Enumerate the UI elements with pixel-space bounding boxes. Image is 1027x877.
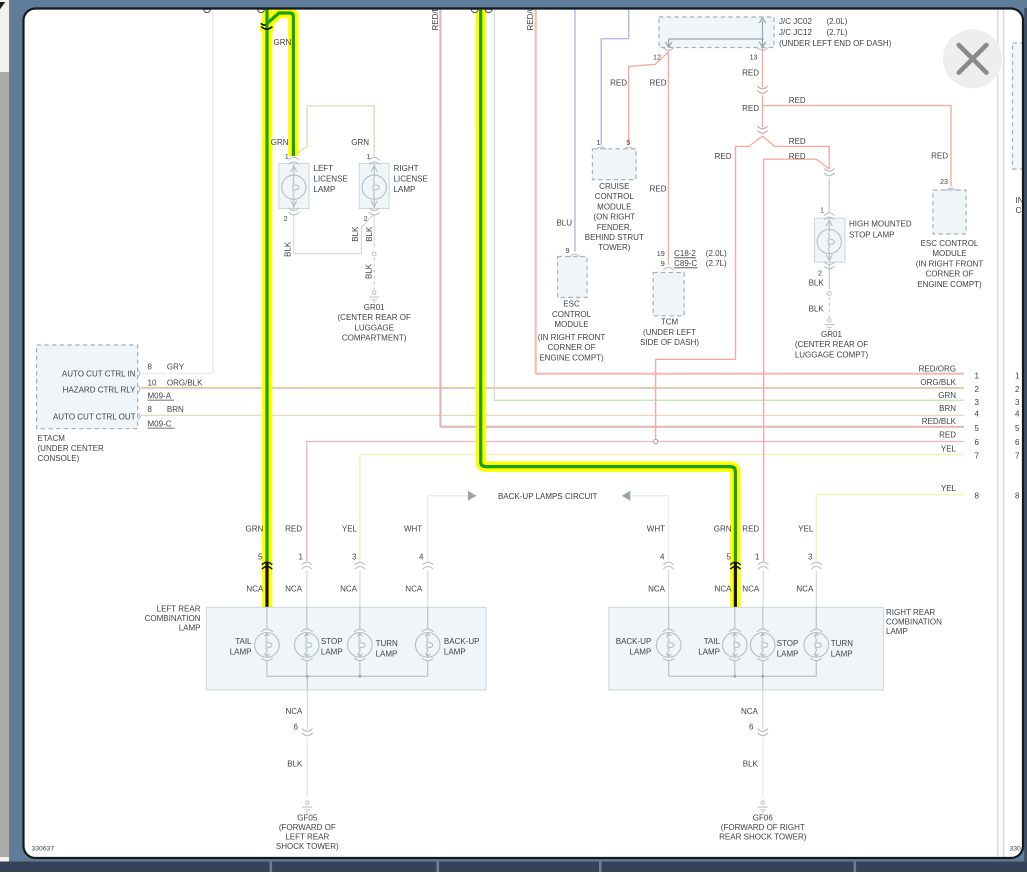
svg-text:5: 5 — [626, 138, 630, 147]
right combination lamp ground exit wire — [762, 689, 764, 729]
svg-text:ETACM: ETACM — [38, 434, 66, 443]
svg-text:1: 1 — [975, 371, 980, 380]
ESC right pin 23 bridge — [946, 188, 956, 191]
svg-text:SHOCK TOWER): SHOCK TOWER) — [276, 842, 339, 851]
svg-text:BRN: BRN — [939, 404, 956, 413]
left rear combination lamp label — [145, 605, 201, 633]
svg-text:LEFT: LEFT — [314, 164, 334, 173]
left tail lamp — [255, 607, 280, 676]
BACK-UP LAMPS CIRCUIT pointer triangles — [468, 491, 477, 501]
svg-text:2: 2 — [364, 214, 368, 223]
svg-text:LAMP: LAMP — [394, 185, 416, 194]
combination lamp pin bridges left: pin1 pin3 pin4 — [302, 562, 312, 569]
right stop lamp — [751, 607, 776, 676]
svg-text:BLK: BLK — [743, 760, 759, 769]
svg-text:LAMP: LAMP — [314, 185, 336, 194]
svg-text:1: 1 — [366, 152, 370, 161]
ground GF06 — [758, 801, 768, 812]
svg-text:RED: RED — [931, 152, 948, 161]
right combination lamp NCA column wires — [668, 571, 670, 608]
TCM box — [653, 273, 684, 316]
in-line connector above high mounted stop lamp — [824, 169, 834, 176]
splice circle license BLK — [372, 252, 376, 256]
svg-text:RED/ORG: RED/ORG — [919, 364, 956, 373]
svg-text:RED: RED — [610, 79, 627, 88]
svg-text:AUTO CUT CTRL OUT: AUTO CUT CTRL OUT — [53, 412, 136, 421]
close button X icon — [959, 45, 987, 73]
thumbnail separator — [270, 862, 273, 873]
svg-text:STOP: STOP — [777, 639, 799, 648]
GR01 left text — [338, 303, 411, 343]
combination lamp pin numbers left — [258, 553, 424, 562]
svg-text:LAMP: LAMP — [179, 624, 201, 633]
svg-text:WHT: WHT — [404, 524, 422, 533]
svg-text:330637: 330637 — [32, 846, 55, 853]
right ground exit in-line connector — [758, 729, 768, 736]
svg-text:3: 3 — [975, 398, 980, 407]
svg-text:NCA: NCA — [285, 584, 303, 593]
svg-text:(CENTER REAR OF: (CENTER REAR OF — [338, 313, 411, 322]
svg-text:CORNER OF: CORNER OF — [926, 270, 974, 279]
GR01 right text — [795, 330, 869, 359]
svg-text:TCM: TCM — [661, 318, 679, 327]
svg-text:LAMP: LAMP — [376, 650, 398, 659]
svg-text:STOP: STOP — [321, 637, 343, 646]
svg-text:8: 8 — [148, 363, 153, 372]
svg-text:C18-2: C18-2 — [674, 249, 696, 258]
svg-text:BRN: BRN — [167, 405, 184, 414]
svg-text:(UNDER LEFT END OF DASH): (UNDER LEFT END OF DASH) — [779, 39, 892, 48]
wire row4 BRN: ETACM AUTO CUT CTRL OUT to right page edge — [141, 414, 964, 416]
svg-text:BACK-UP: BACK-UP — [444, 637, 480, 646]
svg-text:J/C JC02: J/C JC02 — [779, 17, 812, 26]
ESC control module box (left) — [558, 257, 588, 298]
svg-text:HAZARD CTRL RLY: HAZARD CTRL RLY — [63, 385, 137, 394]
svg-text:BLK: BLK — [351, 226, 360, 242]
svg-text:BACK-UP: BACK-UP — [616, 637, 652, 646]
left back-up lamp — [415, 607, 440, 676]
svg-text:NCA: NCA — [741, 707, 759, 716]
svg-text:RED: RED — [650, 185, 667, 194]
ESC control module left text — [538, 300, 606, 363]
ground GF05 — [302, 801, 312, 812]
stop lamp pin 1 bridges — [824, 213, 834, 220]
left license lamp pin 2 cups — [289, 208, 299, 215]
svg-text:BLK: BLK — [365, 226, 374, 242]
svg-text:GR01: GR01 — [821, 330, 842, 339]
wire row1 RED/ORG: from top of page down x=535.7 then right to page edge — [535, 9, 964, 373]
scrollbar arrow — [0, 2, 5, 9]
svg-text:NCA: NCA — [742, 584, 760, 593]
ETACM pin arcs — [138, 370, 140, 419]
right turn lamp — [804, 607, 829, 676]
svg-text:4: 4 — [419, 553, 424, 562]
wire GRN thin between license lamps — [294, 106, 374, 157]
splice circle stop lamp BLK — [827, 291, 831, 295]
right license lamp box — [359, 164, 389, 209]
wire gray from stop lamp in-line connector to pin 1 — [828, 179, 830, 213]
junction circle on row6 RED — [653, 439, 657, 443]
combination lamp pin bridges right: pin4 pin1 pin3 — [663, 562, 673, 569]
thumbnail separator — [437, 862, 440, 873]
page boundary double line — [998, 9, 1004, 859]
stop lamp pin 2 cups — [824, 262, 834, 269]
ground GR01 right — [824, 318, 834, 329]
cruise control module box — [592, 149, 636, 180]
svg-text:3: 3 — [808, 553, 813, 562]
svg-text:RED: RED — [939, 431, 956, 440]
svg-text:BLU: BLU — [556, 218, 572, 227]
svg-text:STOP LAMP: STOP LAMP — [849, 231, 895, 240]
close button — [943, 29, 1002, 88]
svg-text:M09-C: M09-C — [148, 419, 172, 428]
svg-text:J/C JC12: J/C JC12 — [779, 28, 812, 37]
svg-text:330: 330 — [1010, 846, 1022, 853]
svg-text:2: 2 — [975, 385, 980, 394]
svg-text:(FORWARD OF: (FORWARD OF — [279, 823, 336, 832]
wire BLU from top of page to cruise control module pin 1 — [601, 9, 628, 145]
svg-text:(FORWARD OF RIGHT: (FORWARD OF RIGHT — [721, 823, 805, 832]
right rear combination lamp box — [609, 607, 884, 690]
svg-text:CONTROL: CONTROL — [595, 192, 635, 201]
highlighted GRN wire cores — [267, 8, 735, 562]
svg-text:FENDER,: FENDER, — [597, 223, 632, 232]
ESC control module box (right) — [933, 190, 966, 234]
svg-text:NCA: NCA — [648, 584, 666, 593]
wire RED from J/C pin 12 diagonal to cruise control module pin 5 — [629, 52, 669, 145]
svg-text:1: 1 — [299, 553, 304, 562]
svg-text:4: 4 — [975, 410, 980, 419]
row pin numbers col1 — [975, 371, 980, 500]
svg-text:ESC CONTROL: ESC CONTROL — [921, 239, 979, 248]
CCM pin 5 bridge — [624, 147, 634, 150]
svg-text:GRN: GRN — [351, 138, 369, 147]
svg-text:6: 6 — [1015, 438, 1020, 447]
svg-text:4: 4 — [1015, 410, 1020, 419]
right lamp bus — [669, 675, 817, 677]
svg-text:YEL: YEL — [342, 524, 358, 533]
svg-text:RED: RED — [789, 137, 806, 146]
highlighted pin 5 bridges (black) — [262, 562, 272, 569]
svg-text:ORG/BLK: ORG/BLK — [167, 379, 203, 388]
svg-text:CORNER OF: CORNER OF — [548, 343, 596, 352]
left ground exit in-line connector — [302, 729, 312, 736]
svg-text:YEL: YEL — [941, 484, 957, 493]
svg-text:LUGGAGE COMPT): LUGGAGE COMPT) — [795, 350, 869, 359]
wire WHT right: back-up lamps circuit bracket to right back-up lamp pin 4 — [631, 496, 669, 562]
svg-text:TAIL: TAIL — [235, 637, 252, 646]
next-page connector box (cut at right edge) — [1013, 43, 1027, 169]
black in-line connector on highlighted wire near top — [261, 27, 272, 30]
thumbnail separator — [854, 862, 857, 873]
wire BLK from right license lamp pin 2 down to splice — [373, 215, 375, 248]
svg-text:NCA: NCA — [796, 584, 814, 593]
wire RED Y-split left branch down to row6 junction — [656, 136, 763, 439]
svg-text:LUGGAGE: LUGGAGE — [354, 323, 394, 332]
svg-text:9: 9 — [566, 246, 570, 255]
svg-text:LAMP: LAMP — [831, 650, 853, 659]
svg-text:19: 19 — [657, 249, 665, 258]
svg-text:8: 8 — [975, 492, 980, 501]
svg-text:TOWER): TOWER) — [598, 243, 631, 252]
svg-text:ENGINE COMPT): ENGINE COMPT) — [917, 280, 982, 289]
svg-text:(UNDER LEFT: (UNDER LEFT — [643, 328, 696, 337]
page-top connector bumps — [204, 9, 211, 12]
svg-text:LICENSE: LICENSE — [314, 174, 348, 183]
svg-text:GRN: GRN — [714, 524, 732, 533]
svg-text:5: 5 — [727, 553, 732, 562]
svg-text:NCA: NCA — [246, 584, 264, 593]
svg-text:GF06: GF06 — [753, 814, 774, 823]
svg-text:6: 6 — [294, 723, 299, 732]
bottom thumbnail bar — [0, 862, 1027, 873]
svg-text:(ON RIGHT: (ON RIGHT — [593, 213, 635, 222]
svg-text:BLK: BLK — [365, 263, 374, 279]
wire row7 YEL: left turn lamp pin 3 up to y=454.6 then right to page edge — [360, 455, 964, 562]
svg-text:SIDE OF DASH): SIDE OF DASH) — [640, 338, 699, 347]
svg-text:LAMP: LAMP — [444, 648, 466, 657]
left combination lamp ground exit wire — [306, 689, 308, 729]
J/C pin 12 cup — [663, 48, 673, 51]
wire BLK from left license lamp pin 2 to right license lamp pin 2 — [294, 215, 374, 254]
right tail lamp — [723, 607, 748, 676]
svg-text:LICENSE: LICENSE — [394, 174, 428, 183]
svg-text:(CENTER REAR OF: (CENTER REAR OF — [795, 340, 868, 349]
left scrollbar track — [0, 0, 9, 863]
svg-text:REAR SHOCK TOWER): REAR SHOCK TOWER) — [719, 833, 807, 842]
svg-text:ENGINE COMPT): ENGINE COMPT) — [539, 353, 604, 362]
svg-text:C89-C: C89-C — [674, 259, 697, 268]
svg-text:YEL: YEL — [941, 444, 957, 453]
wire BLK dashed to ground GR01 — [373, 258, 375, 291]
svg-text:1: 1 — [597, 138, 601, 147]
svg-text:GRN: GRN — [938, 391, 956, 400]
svg-text:RED: RED — [742, 69, 759, 78]
svg-text:GRN: GRN — [274, 38, 292, 47]
svg-text:BLK: BLK — [809, 305, 825, 314]
svg-text:GR01: GR01 — [364, 303, 385, 312]
lamp names right box — [616, 637, 652, 657]
wire RED branch to ESC control module pin 23 — [763, 106, 952, 186]
svg-text:MODULE: MODULE — [554, 320, 588, 329]
svg-text:GRY: GRY — [167, 363, 185, 372]
TCM pin bridge — [663, 267, 673, 270]
svg-text:NCA: NCA — [286, 707, 304, 716]
svg-text:LAMP: LAMP — [230, 648, 252, 657]
svg-text:YEL: YEL — [798, 524, 814, 533]
wire RED from stop lamp connector left-down to right stop lamp pin 1 — [764, 159, 830, 561]
svg-text:7: 7 — [1015, 452, 1020, 461]
svg-text:CRUISE: CRUISE — [599, 182, 629, 191]
svg-text:RIGHT REAR: RIGHT REAR — [886, 608, 935, 617]
wire RED from J/C pin 13 down to in-line connector — [762, 48, 764, 87]
in-line connector on RED wire (lower) — [757, 126, 767, 133]
wire row2 ORG/BLK: ETACM HAZARD CTRL RLY to right page edge — [141, 387, 964, 389]
svg-text:CONTROL: CONTROL — [552, 310, 592, 319]
svg-text:5: 5 — [975, 424, 980, 433]
svg-text:6: 6 — [749, 723, 754, 732]
svg-text:WHT: WHT — [647, 524, 665, 533]
svg-text:RED: RED — [789, 152, 806, 161]
svg-text:8: 8 — [148, 405, 153, 414]
svg-text:COMBINATION: COMBINATION — [886, 617, 942, 626]
svg-text:2: 2 — [818, 269, 822, 278]
svg-text:3: 3 — [1015, 398, 1020, 407]
left license lamp bulb — [282, 164, 306, 209]
svg-text:7: 7 — [975, 452, 980, 461]
wire row5 RED/BLK: from top of page down x=440.5 then right to page edge — [440, 9, 964, 426]
svg-text:4: 4 — [660, 553, 665, 562]
thumbnail separator — [599, 862, 602, 873]
svg-text:ORG/BLK: ORG/BLK — [920, 378, 956, 387]
high mounted stop lamp box — [815, 218, 846, 262]
svg-text:1: 1 — [285, 152, 289, 161]
svg-text:ESC: ESC — [563, 300, 580, 309]
in-line connector on RED wire (upper) — [757, 86, 767, 93]
svg-text:LAMP: LAMP — [698, 648, 720, 657]
svg-text:RED: RED — [715, 152, 732, 161]
ESC control module right text — [916, 239, 984, 289]
TCM text — [640, 318, 699, 347]
svg-text:TURN: TURN — [831, 639, 853, 648]
svg-text:23: 23 — [940, 177, 948, 186]
svg-text:RED: RED — [285, 524, 302, 533]
highlighted GRN wire halo — [267, 8, 735, 607]
scrollbar thumb — [0, 72, 9, 857]
svg-text:COMPARTMENT): COMPARTMENT) — [342, 334, 407, 343]
svg-text:RED/BLK: RED/BLK — [922, 417, 957, 426]
right license lamp pin 1 bridges — [369, 158, 379, 165]
svg-text:NCA: NCA — [405, 584, 423, 593]
wire from high mounted stop lamp pin 2 down to splice — [828, 264, 830, 290]
svg-text:BACK-UP LAMPS CIRCUIT: BACK-UP LAMPS CIRCUIT — [498, 492, 598, 501]
wire BLK dashed to ground GR01 right — [828, 297, 830, 318]
left license lamp box — [279, 164, 309, 209]
right back-up lamp — [656, 607, 681, 676]
svg-text:(2.7L): (2.7L) — [827, 28, 848, 37]
svg-text:GRN: GRN — [246, 524, 264, 533]
svg-text:LAMP: LAMP — [630, 648, 652, 657]
svg-text:1: 1 — [755, 553, 760, 562]
left combination lamp NCA column wires — [306, 571, 308, 608]
svg-text:12: 12 — [653, 53, 661, 62]
svg-text:3: 3 — [352, 553, 357, 562]
svg-text:RED: RED — [742, 104, 759, 113]
highlighted wire NCA black cores below pin 5 — [265, 562, 268, 607]
NCA labels left — [246, 584, 422, 593]
left license lamp pin 1 bridges — [289, 158, 299, 165]
svg-text:2: 2 — [284, 214, 288, 223]
right license lamp bulb — [362, 164, 386, 209]
J/C pin 13 cup — [757, 48, 767, 51]
left rear combination lamp box — [206, 607, 486, 690]
svg-text:COMBINATION: COMBINATION — [145, 614, 201, 623]
svg-text:CONSOLE): CONSOLE) — [38, 454, 80, 463]
scrollbar border — [9, 0, 10, 863]
svg-text:6: 6 — [975, 438, 980, 447]
ground GR01 left — [369, 291, 379, 302]
svg-text:BEHIND STRUT: BEHIND STRUT — [585, 233, 644, 242]
ESC left pin 9 bridge — [570, 254, 580, 257]
svg-text:BLK: BLK — [283, 241, 292, 257]
svg-text:(2.0L): (2.0L) — [827, 17, 848, 26]
left lamp bus — [267, 675, 428, 677]
lamp names left box — [230, 637, 252, 657]
svg-text:(IN RIGHT FRONT: (IN RIGHT FRONT — [538, 333, 606, 342]
svg-text:8: 8 — [1015, 492, 1020, 501]
svg-text:GF05: GF05 — [297, 814, 318, 823]
svg-text:NCA: NCA — [715, 584, 733, 593]
wire RED Y-split right branch to high mounted stop lamp connector — [763, 136, 830, 169]
svg-text:LAMP: LAMP — [777, 650, 799, 659]
row pin numbers col2 — [1015, 371, 1020, 500]
svg-text:(2.7L): (2.7L) — [706, 259, 727, 268]
wire row6 RED: left stop lamp pin 1 up to y=441.5 then right to page edge — [307, 442, 964, 562]
svg-text:(UNDER CENTER: (UNDER CENTER — [38, 444, 104, 453]
svg-text:MODULE: MODULE — [597, 202, 631, 211]
svg-text:5: 5 — [258, 553, 263, 562]
wire GRY: ETACM AUTO CUT CTRL IN to top of page — [141, 9, 213, 373]
NCA labels right — [648, 584, 814, 593]
svg-text:RED: RED — [742, 524, 759, 533]
wire row8 YEL: right turn lamp pin 3 up to y=494.6 then right to page edge — [816, 495, 964, 562]
svg-text:NCA: NCA — [340, 584, 358, 593]
right edge shadow — [1024, 8, 1027, 862]
svg-text:(2.0L): (2.0L) — [706, 249, 727, 258]
high mounted stop lamp bulb — [817, 218, 841, 262]
svg-text:1: 1 — [1015, 371, 1020, 380]
svg-text:LAMP: LAMP — [321, 648, 343, 657]
svg-text:TAIL: TAIL — [704, 637, 721, 646]
svg-text:LEFT REAR: LEFT REAR — [157, 605, 201, 614]
right license lamp pin 2 cups — [369, 208, 379, 215]
left stop lamp — [295, 607, 320, 676]
CCM pin 1 bridge — [596, 147, 606, 150]
svg-text:2: 2 — [1015, 385, 1020, 394]
svg-text:1: 1 — [820, 206, 824, 215]
svg-text:TURN: TURN — [376, 639, 398, 648]
svg-text:HIGH MOUNTED: HIGH MOUNTED — [849, 220, 912, 229]
svg-text:M09-A: M09-A — [148, 391, 172, 400]
svg-text:(IN RIGHT FRONT: (IN RIGHT FRONT — [916, 259, 984, 268]
svg-text:AUTO CUT CTRL IN: AUTO CUT CTRL IN — [62, 369, 136, 378]
combination lamp pin numbers right — [660, 553, 813, 562]
svg-text:5: 5 — [1015, 424, 1020, 433]
svg-text:13: 13 — [750, 53, 758, 62]
wire row3 GRN: from top of page down x=494.3 then right to page edge — [494, 9, 964, 400]
svg-text:LEFT REAR: LEFT REAR — [285, 833, 329, 842]
svg-text:BLK: BLK — [809, 278, 825, 287]
svg-text:9: 9 — [661, 259, 665, 268]
cruise control module text — [585, 182, 644, 252]
svg-text:BLK: BLK — [287, 760, 303, 769]
svg-text:10: 10 — [148, 379, 157, 388]
left turn lamp — [348, 607, 373, 676]
ETACM box — [37, 345, 138, 429]
svg-text:LAMP: LAMP — [886, 627, 908, 636]
svg-text:MODULE: MODULE — [932, 249, 966, 258]
wire WHT left: back-up lamps circuit bracket to left back-up lamp pin 4 — [428, 496, 468, 562]
wire BLU to ESC control module pin 9 — [574, 9, 576, 252]
svg-text:RED: RED — [650, 79, 667, 88]
svg-text:RED: RED — [789, 96, 806, 105]
J/C JC02/JC12 junction box — [659, 17, 774, 48]
wire RED from J/C pin 12 down to TCM — [667, 51, 669, 265]
svg-text:GRN: GRN — [271, 138, 289, 147]
svg-text:RIGHT: RIGHT — [394, 164, 419, 173]
